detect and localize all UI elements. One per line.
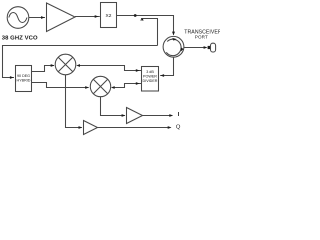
arrowhead into mixer M1: [51, 64, 55, 67]
sine wave inside VCO: [9, 12, 27, 22]
svg-text:I: I: [178, 112, 180, 118]
oscillator 38 GHz VCO: [7, 7, 29, 29]
directional coupler coupled line: [141, 19, 158, 46]
circulator: [163, 36, 184, 57]
svg-text:PORT: PORT: [195, 35, 208, 40]
circulator inner arc: [166, 39, 181, 55]
amplifier I: [127, 108, 143, 124]
arrowhead into mixer M2: [85, 86, 89, 89]
hybrid box 90 deg: [16, 66, 32, 92]
arrowhead into divider: [160, 74, 164, 77]
wire hybrid to mixer M1: [32, 66, 55, 72]
wire amplifier I to output I: [143, 115, 173, 117]
wire amplifier to X2: [75, 16, 100, 18]
wire LO return to hybrid: [3, 46, 158, 78]
arrowhead into mixer M2 right: [111, 86, 115, 89]
wire circulator to transceiver port: [184, 47, 207, 49]
mixer M1: [55, 54, 76, 75]
arrowhead into amplifier I: [122, 114, 126, 117]
arrowhead output Q: [168, 126, 172, 129]
mixer M2: [90, 76, 110, 96]
svg-text:38 GHZ VCO: 38 GHZ VCO: [2, 36, 38, 42]
port connector block: [208, 46, 211, 49]
arrowhead into circulator: [172, 32, 175, 36]
arrowhead into divider bottom input: [136, 82, 140, 85]
mixer M2 RF wire from divider: [115, 84, 142, 88]
wire mixer M2 IF to amplifier I: [101, 97, 125, 116]
arrowhead into hybrid: [10, 76, 14, 79]
wire amplifier Q to output Q: [98, 127, 171, 129]
coupler port arrowhead: [140, 18, 144, 20]
wire circulator to power divider: [160, 57, 173, 75]
arrowhead into mixer M1 right: [76, 64, 80, 67]
svg-text:Q: Q: [176, 125, 181, 131]
arrowhead into amplifier: [41, 16, 45, 19]
mixer M1 RF wire from divider: [80, 66, 142, 71]
svg-text:HYBRID: HYBRID: [17, 78, 31, 82]
circulator arrowhead right: [181, 47, 184, 51]
arrowhead output I: [169, 114, 173, 117]
arrowhead into amplifier Q: [79, 126, 83, 129]
junction dot: [134, 14, 137, 17]
svg-text:POWER: POWER: [143, 75, 157, 79]
arrowhead into divider top input: [136, 69, 140, 72]
frequency doubler X2: [101, 3, 117, 28]
svg-text:DIVIDER: DIVIDER: [143, 79, 158, 83]
port connector body: [211, 43, 216, 52]
wire VCO to amplifier: [29, 17, 45, 19]
amplifier A1: [47, 3, 76, 32]
amplifier Q: [84, 121, 98, 135]
svg-text:3 dB: 3 dB: [146, 70, 154, 74]
circulator arrowhead top: [172, 38, 176, 41]
arrowhead into X2: [95, 15, 99, 18]
power divider box: [142, 67, 159, 92]
wire mixer M1 IF to amplifier Q: [66, 75, 82, 128]
wire hybrid to mixer M2: [32, 83, 89, 88]
arrowhead into port: [204, 46, 208, 49]
svg-text:X2: X2: [106, 13, 112, 19]
wire X2 to circulator: [117, 16, 174, 35]
